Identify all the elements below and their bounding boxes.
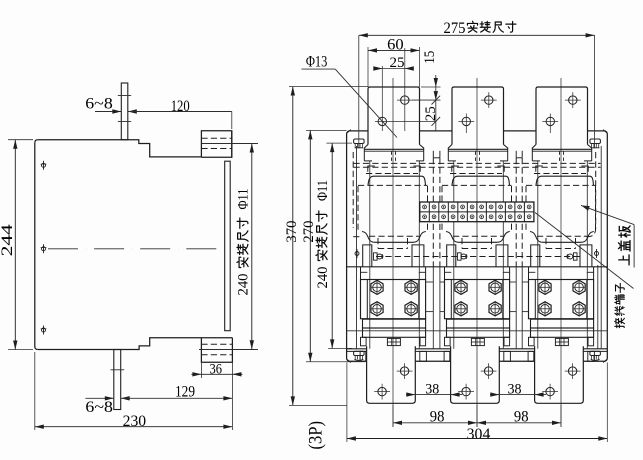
svg-text:120: 120: [171, 97, 190, 115]
corner clamp bolts: [354, 139, 365, 144]
upper terminal tab: [536, 87, 588, 145]
left view horizontal center line: [48, 248, 218, 250]
right view full-width split lines: [347, 266, 608, 268]
lower terminal tab (masking fill): [451, 346, 500, 403]
lower terminal tab: [535, 346, 584, 403]
moving contact indicator: [573, 253, 577, 260]
contact bracket posts: [447, 245, 456, 267]
left view top-right terminal block: [231, 131, 233, 157]
between-pole partition hidden lines: [432, 158, 434, 267]
svg-text:Φ11: Φ11: [236, 189, 252, 210]
lower terminal tab: [451, 346, 500, 403]
svg-text:15: 15: [421, 51, 438, 64]
275 extension lines through mounting holes: [358, 35, 360, 148]
foot steps: [361, 337, 367, 346]
solid shoulder of pole chamber: [536, 176, 594, 185]
right view main body outline: [347, 131, 608, 361]
foot steps: [445, 337, 451, 346]
left side view body outline: [38, 131, 232, 157]
upper tab mounting holes: [462, 117, 470, 125]
foot steps: [529, 337, 535, 346]
dim 270: [306, 129, 347, 131]
lower tab mounting holes: [378, 387, 386, 395]
dim 6~8 bottom left view: [85, 397, 113, 399]
pole center line x=477: [476, 78, 478, 427]
contact bracket posts: [363, 245, 372, 267]
lower terminal tab: [367, 346, 416, 403]
right view base plate lines: [347, 348, 608, 350]
svg-text:240: 240: [236, 274, 252, 296]
grid connector: [471, 338, 484, 345]
svg-text:Φ13: Φ13: [306, 53, 328, 70]
dim 120 top left view: [128, 111, 232, 113]
solid neck: [362, 232, 426, 243]
terminal hex bolts: [455, 280, 467, 294]
left view bottom mounting tab: [114, 350, 121, 410]
dim 370: [289, 86, 368, 88]
arc chute block: [529, 280, 594, 319]
solid shoulder of pole chamber: [452, 176, 510, 185]
lower tab mounting holes: [462, 387, 470, 395]
solid shoulder of pole chamber: [368, 176, 426, 185]
center guide hidden stubs: [391, 152, 393, 164]
moving contact indicator: [374, 253, 378, 260]
svg-text:270: 270: [301, 221, 317, 243]
lower terminal tab (masking fill): [367, 346, 416, 403]
svg-text:275: 275: [444, 19, 466, 37]
inner hooks below flange: [536, 166, 543, 172]
svg-text:6~8: 6~8: [85, 398, 113, 416]
left view side rail: [225, 161, 231, 331]
pole chamber hidden outline: [442, 184, 512, 186]
body corner tick marks: [347, 130, 351, 133]
dim 240 install phi11 left view: [233, 349, 258, 351]
svg-text:129: 129: [175, 382, 195, 400]
between-pole chamber ribs: [426, 281, 434, 283]
svg-text:304: 304: [467, 425, 491, 443]
tab flange: [532, 145, 591, 150]
svg-text:60: 60: [387, 36, 404, 54]
upper terminal tab: [368, 87, 420, 145]
upper terminal tab: [452, 87, 504, 145]
arc chute block: [445, 280, 510, 319]
base feet beside tab: [444, 351, 450, 361]
dim 240 install phi11 right view: [326, 142, 352, 144]
upper terminal tab (masking fill): [368, 87, 420, 145]
top cover plate label: [581, 205, 590, 210]
grid connector: [555, 338, 568, 345]
pole compartment side walls: [537, 161, 539, 349]
auxiliary circuit hidden line: [376, 256, 580, 258]
dim 98 x2: [392, 405, 394, 427]
svg-text:25: 25: [422, 106, 439, 121]
pole compartment side walls: [369, 161, 371, 349]
dim 36 left view: [200, 363, 202, 378]
upper tab mounting holes: [546, 117, 554, 125]
wiring terminal label: [535, 213, 634, 289]
moving contact indicator: [458, 253, 462, 260]
base feet beside tab: [360, 351, 366, 361]
top cover hidden outline (dashed): [354, 162, 601, 164]
center guide hidden stubs: [475, 152, 477, 164]
left view top mounting tab: [121, 83, 128, 140]
right view inner side walls: [356, 146, 358, 349]
svg-text:Φ11: Φ11: [315, 180, 331, 201]
pole compartment side walls: [453, 161, 455, 349]
dim 304: [346, 363, 348, 443]
svg-text:230: 230: [123, 412, 147, 430]
dim 230 left view: [34, 352, 36, 430]
solid neck: [530, 232, 594, 243]
center guide hidden stubs: [559, 152, 561, 164]
pole chamber hidden outline: [358, 184, 428, 186]
left view bottom-right terminal block: [201, 338, 232, 363]
svg-text:240: 240: [315, 267, 331, 289]
partition caps: [433, 157, 440, 159]
busbar strips: [363, 319, 426, 328]
inner hooks below flange: [452, 166, 459, 172]
dim 244 left view: [8, 139, 33, 141]
lower tab mounting holes: [546, 387, 554, 395]
base feet beside tab: [528, 351, 534, 361]
left view fixing screws: [42, 163, 46, 167]
auxiliary terminal strip: [420, 202, 534, 222]
busbar strips: [447, 319, 510, 328]
grid connector: [387, 338, 400, 345]
pole center line x=561: [560, 78, 562, 427]
tab flange: [448, 145, 507, 150]
contact bracket posts: [531, 245, 540, 267]
svg-text:244: 244: [0, 224, 16, 256]
tab flange: [364, 145, 423, 150]
pole center line x=393: [392, 78, 394, 427]
arc chute block: [361, 280, 426, 319]
pole chamber hidden outline: [526, 184, 596, 186]
solid neck: [446, 232, 510, 243]
svg-text:6~8: 6~8: [85, 95, 113, 113]
terminal hex bolts: [371, 280, 383, 294]
terminal hex bolts: [539, 280, 551, 294]
busbar strips: [531, 319, 594, 328]
svg-text:36: 36: [210, 362, 223, 378]
small side screws: [355, 252, 359, 256]
svg-text:(3P): (3P): [306, 421, 327, 450]
svg-text:370: 370: [284, 221, 300, 243]
inner hooks below flange: [368, 166, 375, 172]
lower terminal tab (masking fill): [535, 346, 584, 403]
upper terminal tab (masking fill): [452, 87, 504, 145]
upper tab mounting holes: [378, 117, 386, 125]
upper terminal tab (masking fill): [536, 87, 588, 145]
